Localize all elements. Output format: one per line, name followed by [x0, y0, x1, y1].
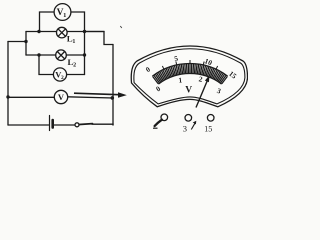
speck	[120, 26, 122, 28]
terminal minus	[153, 114, 168, 128]
pointer arrow to meter	[74, 92, 127, 98]
battery B1 short plate	[51, 120, 54, 128]
wire bottom rail	[8, 123, 113, 126]
voltmeter U-V	[54, 90, 67, 103]
wire L1 branch	[26, 31, 104, 33]
svg-text:15: 15	[204, 125, 212, 134]
scale band hatch	[153, 64, 228, 84]
terminal 3	[183, 115, 197, 134]
lamp L2	[56, 50, 67, 61]
wire V1 left lead	[40, 12, 55, 31]
svg-text:V: V	[58, 92, 65, 102]
switch S1	[75, 123, 93, 127]
battery B1 long plate	[49, 116, 51, 131]
wire right step rail	[85, 32, 114, 45]
meter housing inner outline	[134, 49, 245, 104]
voltmeter U-V2	[53, 68, 66, 81]
meter housing outer outline	[131, 46, 247, 107]
svg-text:V: V	[185, 85, 192, 95]
major ticks	[162, 66, 164, 69]
wire L2 branch	[26, 54, 85, 56]
node junction dots	[6, 30, 114, 100]
wire V2 right lead	[67, 74, 85, 76]
svg-text:L1: L1	[67, 34, 76, 46]
svg-text:3: 3	[183, 124, 187, 134]
wire V1 right lead / right bus x=84.5	[71, 12, 85, 75]
wire V branch	[8, 97, 113, 98]
voltmeter U-V1	[54, 4, 71, 21]
terminal 15	[204, 115, 214, 134]
wire left bus	[25, 32, 27, 56]
needle	[196, 75, 210, 108]
lamp L1	[57, 27, 68, 38]
wire left tap rail	[8, 41, 26, 43]
scale band boundary arcs	[158, 73, 221, 84]
wire outer right vertical	[112, 45, 114, 126]
wire V2 left lead	[39, 55, 53, 75]
wire outer left vertical	[7, 42, 9, 126]
svg-text:L2: L2	[68, 57, 77, 69]
